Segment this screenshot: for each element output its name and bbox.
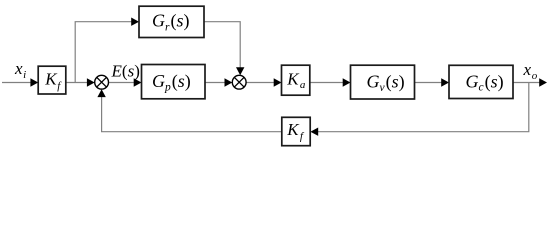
svg-text:Gc(s): Gc(s) <box>466 71 504 93</box>
svg-text:Gr(s): Gr(s) <box>152 11 190 34</box>
svg-text:Gp(s): Gp(s) <box>152 71 191 93</box>
svg-text:Gv(s): Gv(s) <box>367 71 405 94</box>
svg-text:E(s): E(s) <box>111 61 140 80</box>
